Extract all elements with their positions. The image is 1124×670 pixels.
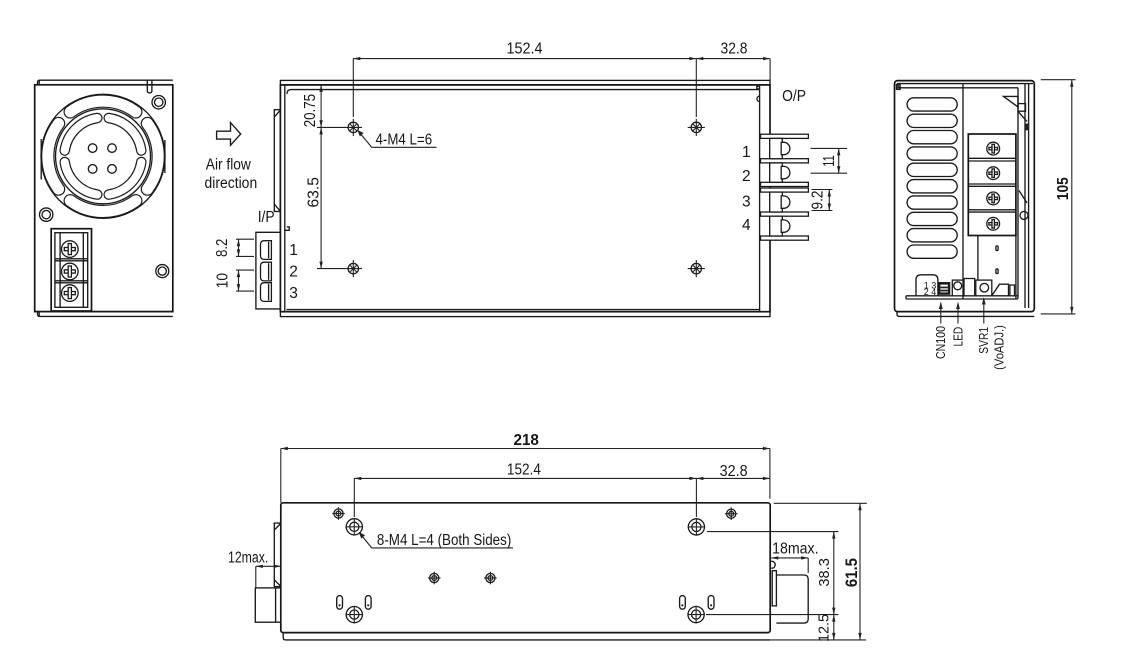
standoff box [964,279,975,296]
terminal screw 3 [62,285,79,302]
O/P terminal 4 [770,216,783,236]
fan tab protrusion left [274,523,281,587]
side bottom band [897,312,1034,317]
O/P busbar 6 [761,236,809,240]
mount hole bottom-left (M4) [346,606,364,624]
dim 11 extension lines [811,147,848,149]
svg-text:LED: LED [951,327,966,347]
fan outer circle [41,94,165,218]
small notch on right inner wall [757,86,760,89]
hole row tick bottom [317,268,345,270]
dim 32.8 line [696,58,770,60]
band tick top-left [38,80,40,85]
svg-text:152.4: 152.4 [507,462,541,479]
wall top triangle [1004,96,1019,107]
svg-text:10: 10 [214,273,231,289]
side corner mark [897,85,901,90]
support bracket [992,284,1009,296]
side lid seam [897,83,1033,85]
O/P terminal 3 [770,192,783,212]
dim 18max line [771,557,808,559]
svg-text:32.8: 32.8 [720,463,748,480]
bottom plate [906,295,1018,297]
dim 218 extension lines [280,449,282,503]
dim 152.4 line [354,477,696,479]
fan inner slot top-left [65,118,98,151]
bottom view body outline [281,503,770,633]
CN100 connector [938,282,950,295]
small pin tab top right [147,80,152,93]
svg-text:1: 1 [289,242,298,259]
chassis screw hole bottom right [156,265,169,278]
terminal dividers [55,258,88,260]
mount hole top-left (M4) [346,518,364,536]
svg-text:SVR1: SVR1 [976,327,991,354]
dim 11 line [838,148,840,173]
top view lid band [280,80,770,85]
O/P busbar 5 [761,212,809,216]
ext line top edge right [774,502,867,504]
fan outer slot left [48,124,59,190]
input terminal block inner frame [55,233,88,308]
dim 10 line [238,270,240,291]
internal divider [962,84,964,299]
ext line bottom edge [770,639,866,641]
fan inner slot bottom-left [65,162,98,195]
dim 105 line [1071,80,1073,314]
far-side screw top-left [332,507,345,520]
wall clip rect [1018,104,1026,112]
input terminal protrusion left [255,588,280,622]
inner panel lines [284,85,286,312]
fan tab protrusion left [274,110,280,212]
LED [954,282,962,290]
I/P pin 2 [261,262,272,281]
leader SVR1 [983,299,985,324]
svg-text:2: 2 [289,264,298,281]
dim 218 line [281,448,770,450]
dim 105 extension lines [1041,79,1076,81]
center screw left [428,572,441,585]
dim 32.8 line [696,477,770,479]
dim 152.4 extension lines [353,478,355,517]
mounting hole bottom-left [345,260,362,277]
svg-text:218: 218 [514,432,539,449]
block screw 3 [987,192,1000,205]
output block protrusion [776,575,808,623]
side inner top line [896,87,1018,89]
bottom band [283,633,770,640]
CN100 label box [916,275,938,296]
leader 4-M4 [360,133,437,147]
fan inner circle [56,109,151,204]
svg-text:12.5: 12.5 [816,614,833,642]
D bump on right inner wall [757,96,760,101]
hole row tick top [317,126,345,128]
dim 63.5 line [320,127,322,268]
svg-text:105: 105 [1055,177,1072,200]
svg-text:38.3: 38.3 [816,558,833,586]
dim 10 extension lines [236,269,254,271]
svg-text:direction: direction [205,175,258,192]
dim 152.4 extension lines [352,59,354,117]
wall dark clip [1026,124,1030,131]
top view body outline [280,85,770,312]
chassis screw hole top right [152,96,165,109]
I/P pin 3 [261,283,272,302]
fan outer slot top [70,101,136,112]
side view body outline [895,81,1035,312]
fan inner slot top-right [109,118,142,151]
fan inner slot bottom-right [109,162,142,195]
svg-text:3: 3 [742,193,751,210]
dim 9.2 extension lines [812,189,833,191]
right wall lines [1017,88,1019,299]
terminal screw 2 [62,263,79,280]
svg-text:61.5: 61.5 [842,558,861,587]
leader CN100 [940,304,942,324]
air flow arrow outline [217,123,241,146]
svg-text:9.2: 9.2 [810,191,827,210]
output bump semicircle [771,561,775,568]
front bottom lid band [38,312,173,317]
svg-text:11: 11 [821,155,838,167]
svg-text:O/P: O/P [782,88,806,105]
I/P terminal block (top view) [256,232,281,309]
output busbar edge [772,571,776,606]
fan side flats [40,139,42,180]
output terminal block (side) [968,134,1016,236]
svg-text:Air flow: Air flow [206,157,252,174]
mount hole top-right (M4) [688,518,706,536]
svg-text:CN100: CN100 [933,326,948,359]
O/P busbar 2 [761,159,809,163]
slot pin dots [339,604,341,606]
mounting hole bottom-right [688,260,705,277]
dim 12max extension [255,566,257,588]
leader LED [957,304,959,324]
dim 152.4 line [353,58,696,60]
mount hole bottom-right (M4) [687,606,705,624]
small clip [1010,285,1015,296]
block screw 4 [987,217,1000,230]
svg-text:4: 4 [742,217,751,234]
small hook on left inner wall [285,227,289,230]
dim 12max line [256,565,281,567]
corner chamfer [896,84,900,88]
block screw 1 [987,142,1000,155]
mounting hole top-left [345,119,362,136]
dim 9.2 line [828,190,830,211]
dim 8.2 line [238,239,240,256]
ext line bottom hole row [706,614,839,616]
svg-text:18max.: 18max. [772,541,819,558]
terminal screw 1 [62,241,79,258]
O/P busbar 4 [761,188,809,192]
far-side screw top-right [725,507,738,520]
svg-text:(VoADJ.): (VoADJ.) [991,325,1006,370]
mounting slot 3 [680,596,686,610]
svg-text:8.2: 8.2 [214,239,231,257]
fan hub holes [88,144,97,153]
louver vents [907,98,957,111]
dim 12.5 line [833,615,835,640]
O/P terminal 2 [770,163,783,182]
dim 38.3 line [833,532,835,615]
svg-text:152.4: 152.4 [507,41,543,58]
chassis screw hole left [40,208,53,221]
dim 8.2 extension lines [236,238,254,240]
PCB pin marks [996,246,998,251]
svg-text:63.5: 63.5 [306,177,323,208]
svg-text:32.8: 32.8 [721,41,748,58]
svg-text:8-M4 L=4 (Both Sides): 8-M4 L=4 (Both Sides) [377,532,511,549]
svg-text:20.75: 20.75 [302,94,319,127]
ext line hole row right [707,531,839,533]
svg-text:1: 1 [742,144,751,161]
LED holder [952,280,963,296]
block screw 2 [987,167,1000,180]
dim 61.5 line [859,503,861,640]
fan outer slot bottom [70,201,136,212]
band tick bottom-left [38,312,40,317]
front top lid band [38,80,173,85]
I/P pin 1 [261,241,272,260]
SVR1 pot [976,280,992,296]
O/P busbar 1 [761,134,809,138]
input terminal block outer [51,229,91,311]
dim 20.75 line [320,85,322,127]
svg-text:3: 3 [289,285,298,302]
svg-text:12max.: 12max. [228,549,268,566]
svg-text:2 4: 2 4 [924,287,937,297]
mounting slot 2 [365,596,371,610]
O/P busbar 3 [761,182,809,186]
fan outer slot right [147,124,158,190]
mounting slot 1 [337,596,343,610]
mounting hole top-right [688,119,705,136]
svg-text:2: 2 [742,168,751,185]
O/P terminal 1 [770,138,783,158]
svg-text:I/P: I/P [258,209,275,226]
top view bottom band [280,312,770,317]
front body outline [35,85,173,312]
PCB side walls [977,236,979,283]
leader 8-M4 [361,535,513,548]
center screw right [484,572,497,585]
wall screw circle [1020,211,1028,219]
mounting slot 4 [708,596,714,610]
svg-text:4-M4 L=6: 4-M4 L=6 [376,131,433,148]
